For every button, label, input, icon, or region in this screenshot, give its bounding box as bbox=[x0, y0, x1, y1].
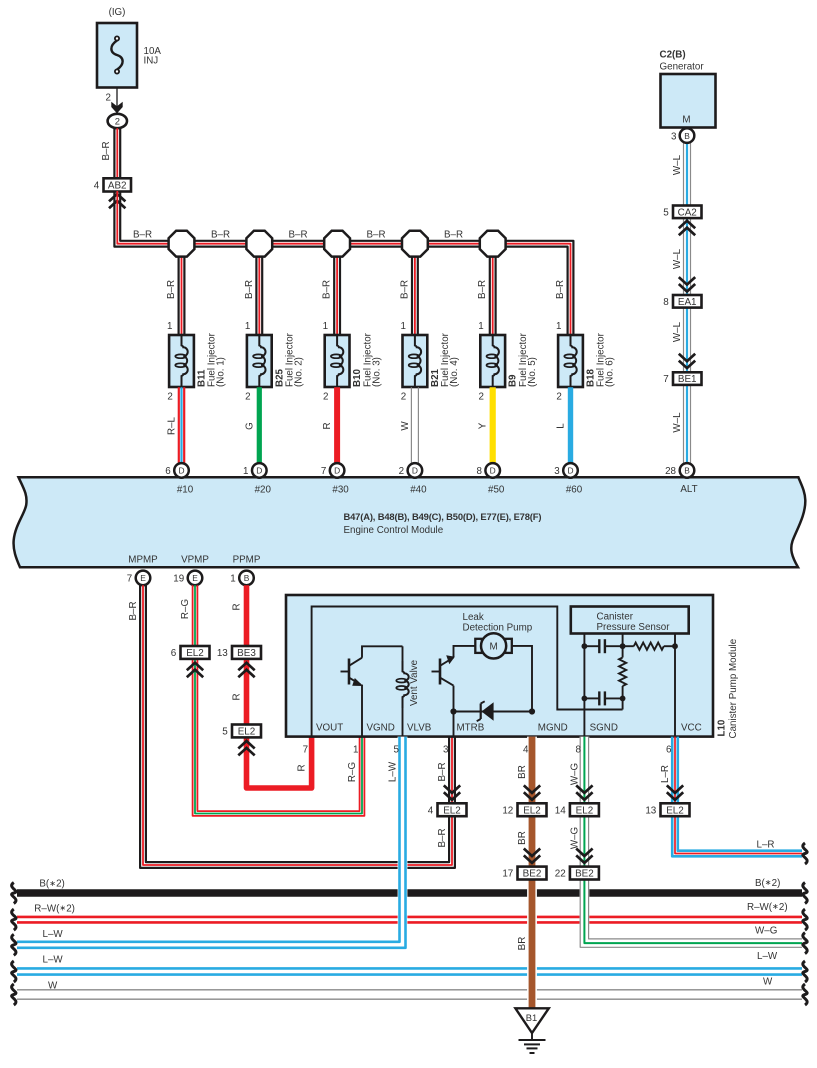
svg-text:#50: #50 bbox=[488, 484, 505, 495]
svg-text:INJ: INJ bbox=[144, 56, 159, 67]
left edge break symbols bbox=[12, 883, 16, 1006]
wire G injector B25 to ECM bbox=[244, 387, 259, 463]
svg-text:B–R: B–R bbox=[288, 230, 307, 241]
pin numbers below module bbox=[303, 745, 672, 756]
svg-text:B–R: B–R bbox=[444, 230, 463, 241]
svg-text:M: M bbox=[489, 642, 497, 653]
svg-text:W: W bbox=[400, 421, 411, 431]
svg-text:BE2: BE2 bbox=[575, 869, 594, 880]
svg-text:B–R: B–R bbox=[555, 280, 566, 299]
svg-text:L–W: L–W bbox=[388, 761, 399, 782]
svg-text:VOUT: VOUT bbox=[316, 722, 343, 733]
svg-text:R–L: R–L bbox=[167, 416, 178, 435]
svg-text:R: R bbox=[322, 422, 333, 429]
svg-text:MGND: MGND bbox=[538, 722, 568, 733]
svg-text:19: 19 bbox=[173, 574, 184, 585]
canister pump module L10 box bbox=[286, 595, 739, 739]
svg-text:L10: L10 bbox=[717, 719, 728, 736]
svg-text:6: 6 bbox=[171, 648, 177, 659]
svg-text:7: 7 bbox=[321, 466, 326, 477]
node 3 (D) pin #60 bbox=[554, 463, 582, 495]
svg-text:1: 1 bbox=[230, 574, 235, 585]
svg-text:Detection Pump: Detection Pump bbox=[463, 623, 533, 634]
svg-text:L: L bbox=[556, 423, 567, 429]
svg-text:EA1: EA1 bbox=[678, 297, 697, 308]
wire W injector B21 to ECM bbox=[400, 387, 419, 463]
svg-text:BE3: BE3 bbox=[237, 648, 256, 659]
svg-text:D: D bbox=[334, 466, 340, 476]
pin 2 of fuse, lead down bbox=[106, 88, 123, 114]
resistor R1 (horizontal) bbox=[623, 645, 634, 647]
svg-text:R–W(∗2): R–W(∗2) bbox=[747, 902, 788, 913]
transistor Q2 (pump motor driver) bbox=[432, 646, 477, 737]
connector 6 EL2 bbox=[171, 646, 210, 677]
wire R: PPMP down through BE3, EL2, across up to VOUT bbox=[232, 585, 312, 788]
svg-text:B: B bbox=[684, 466, 690, 476]
bus wire R-W(*2) bbox=[17, 902, 802, 922]
svg-text:B(∗2): B(∗2) bbox=[755, 878, 780, 889]
svg-text:Generator: Generator bbox=[660, 62, 705, 73]
svg-text:B–R: B–R bbox=[211, 230, 230, 241]
svg-text:1: 1 bbox=[400, 321, 405, 332]
fuel injector B25 (No. 2) bbox=[245, 332, 304, 402]
svg-text:R–W(∗2): R–W(∗2) bbox=[34, 903, 75, 914]
canister pressure sensor bbox=[571, 607, 689, 634]
node 2 (ellipse) bbox=[108, 114, 127, 128]
connector 14 EL2 bbox=[555, 785, 599, 816]
svg-text:W–G: W–G bbox=[755, 926, 777, 937]
svg-text:13: 13 bbox=[217, 648, 228, 659]
connector 8 EA1 bbox=[663, 277, 701, 308]
svg-text:C2(B): C2(B) bbox=[660, 50, 686, 61]
node 28 (B) at ECM ALT bbox=[665, 463, 698, 495]
svg-text:L–W: L–W bbox=[43, 954, 64, 965]
svg-text:EL2: EL2 bbox=[238, 727, 256, 738]
wire L-W: VLVB down then left (row 3) bbox=[17, 737, 406, 948]
svg-text:B1: B1 bbox=[526, 1012, 537, 1023]
svg-text:Vent Valve: Vent Valve bbox=[409, 659, 420, 706]
Engine Control Module band bbox=[14, 477, 806, 567]
svg-text:R–G: R–G bbox=[347, 762, 358, 782]
svg-text:7: 7 bbox=[303, 745, 308, 756]
svg-text:G: G bbox=[244, 422, 255, 430]
svg-text:BR: BR bbox=[517, 765, 528, 779]
resistor R2 (vertical) bbox=[619, 658, 626, 687]
node 19 (E) VPMP bbox=[173, 554, 209, 585]
svg-text:B–R: B–R bbox=[133, 230, 152, 241]
svg-text:BE1: BE1 bbox=[678, 374, 697, 385]
svg-text:R: R bbox=[232, 693, 243, 700]
svg-text:E: E bbox=[192, 573, 198, 583]
svg-text:2: 2 bbox=[401, 392, 406, 403]
wire B-R from node 2 to connector AB2 bbox=[101, 128, 120, 178]
svg-text:B(∗2): B(∗2) bbox=[39, 879, 64, 890]
B-R drop labels and pin 1 labels bbox=[166, 280, 566, 332]
svg-text:2: 2 bbox=[323, 392, 328, 403]
leak detection pump motor M bbox=[463, 612, 533, 712]
fuel injector B21 (No. 4) bbox=[401, 332, 460, 402]
svg-text:MPMP: MPMP bbox=[128, 554, 158, 565]
svg-text:L–W: L–W bbox=[757, 951, 778, 962]
svg-text:Canister: Canister bbox=[597, 612, 634, 623]
svg-text:#30: #30 bbox=[332, 484, 349, 495]
transistor Q1 (vent valve driver) bbox=[341, 646, 403, 736]
svg-text:2: 2 bbox=[556, 392, 561, 403]
capacitor C1 bbox=[584, 645, 599, 647]
svg-text:B–R: B–R bbox=[322, 280, 333, 299]
svg-text:#60: #60 bbox=[566, 484, 583, 495]
svg-text:B–R: B–R bbox=[366, 230, 385, 241]
svg-text:B–R: B–R bbox=[437, 762, 448, 781]
svg-text:W–G: W–G bbox=[569, 763, 580, 785]
svg-text:1: 1 bbox=[167, 321, 172, 332]
connector 4 EL2 bbox=[428, 785, 467, 816]
svg-text:AB2: AB2 bbox=[108, 181, 127, 192]
svg-text:3: 3 bbox=[671, 131, 677, 142]
svg-text:VGND: VGND bbox=[367, 722, 395, 733]
connector 22 BE2 bbox=[555, 849, 599, 880]
wire R–L injector B11 to ECM bbox=[167, 387, 185, 463]
svg-text:3: 3 bbox=[443, 745, 449, 756]
svg-text:CA2: CA2 bbox=[678, 207, 697, 218]
svg-text:R: R bbox=[297, 764, 308, 771]
bus wire B(*2) bbox=[17, 878, 802, 893]
svg-text:(No. 1): (No. 1) bbox=[216, 357, 227, 387]
svg-text:B–R: B–R bbox=[128, 601, 139, 620]
svg-text:1: 1 bbox=[323, 321, 328, 332]
svg-text:Leak: Leak bbox=[463, 612, 484, 623]
svg-text:E: E bbox=[140, 573, 146, 583]
connector 5 CA2 bbox=[663, 206, 701, 236]
svg-text:Canister Pump Module: Canister Pump Module bbox=[728, 638, 739, 738]
svg-text:Pressure Sensor: Pressure Sensor bbox=[597, 622, 671, 633]
svg-text:W–L: W–L bbox=[672, 154, 683, 175]
svg-text:22: 22 bbox=[555, 869, 566, 880]
module pin labels bbox=[316, 722, 702, 733]
wire W-G: SGND down then right to right edge bbox=[569, 737, 802, 948]
svg-text:Engine Control Module: Engine Control Module bbox=[344, 525, 444, 536]
svg-text:6: 6 bbox=[165, 466, 171, 477]
wire Y injector B9 to ECM bbox=[478, 387, 493, 463]
fuel injector B11 (No. 1) bbox=[167, 332, 226, 402]
svg-text:W: W bbox=[763, 977, 773, 988]
svg-text:EL2: EL2 bbox=[666, 805, 684, 816]
node 6 (D) pin #10 bbox=[165, 463, 193, 495]
svg-text:B: B bbox=[684, 131, 690, 141]
svg-text:D: D bbox=[256, 466, 262, 476]
svg-text:B–R: B–R bbox=[437, 828, 448, 847]
wire L injector B18 to ECM bbox=[556, 387, 571, 463]
svg-text:BR: BR bbox=[517, 831, 528, 845]
svg-text:1: 1 bbox=[353, 745, 358, 756]
node 1 (D) pin #20 bbox=[243, 463, 271, 495]
svg-text:8: 8 bbox=[575, 745, 581, 756]
connector 13 EL2 bbox=[645, 785, 689, 816]
svg-text:1: 1 bbox=[245, 321, 250, 332]
fuse 10A INJ (IG) bbox=[97, 7, 161, 88]
svg-text:M: M bbox=[682, 115, 690, 126]
svg-text:5: 5 bbox=[394, 745, 400, 756]
svg-text:2: 2 bbox=[115, 116, 120, 127]
svg-text:W–L: W–L bbox=[672, 412, 683, 433]
node 2 (D) pin #40 bbox=[399, 463, 427, 495]
svg-text:SGND: SGND bbox=[590, 722, 618, 733]
svg-text:4: 4 bbox=[94, 181, 100, 192]
svg-text:(No. 6): (No. 6) bbox=[605, 357, 616, 387]
svg-text:2: 2 bbox=[479, 392, 484, 403]
svg-text:VCC: VCC bbox=[681, 722, 702, 733]
wire B-R feed: AB2 down, bus right, drop to injector 6 bbox=[114, 191, 573, 335]
svg-text:VLVB: VLVB bbox=[407, 722, 432, 733]
svg-text:13: 13 bbox=[645, 805, 656, 816]
svg-text:ALT: ALT bbox=[680, 484, 697, 495]
ground B1 bbox=[515, 1008, 548, 1053]
connector 5 EL2 bbox=[222, 725, 261, 756]
wire B-R: MPMP down, across, up to 4 EL2 / MTRB bbox=[128, 585, 455, 868]
svg-text:BE2: BE2 bbox=[523, 869, 542, 880]
svg-text:B47(A), B48(B), B49(C), B50(D): B47(A), B48(B), B49(C), B50(D), E77(E), … bbox=[344, 511, 542, 522]
svg-text:17: 17 bbox=[502, 869, 513, 880]
svg-text:5: 5 bbox=[222, 727, 228, 738]
svg-text:D: D bbox=[490, 466, 496, 476]
bus wire W (row 5) bbox=[17, 977, 802, 1000]
svg-text:(No. 5): (No. 5) bbox=[527, 357, 538, 387]
svg-text:1: 1 bbox=[243, 466, 248, 477]
svg-text:4: 4 bbox=[523, 745, 529, 756]
svg-text:(IG): (IG) bbox=[109, 7, 126, 18]
svg-text:EL2: EL2 bbox=[443, 805, 461, 816]
svg-text:BR: BR bbox=[517, 937, 528, 951]
svg-text:5: 5 bbox=[663, 207, 669, 218]
fuel injector B10 (No. 3) bbox=[323, 332, 382, 402]
svg-text:W–L: W–L bbox=[672, 248, 683, 269]
connector 17 BE2 bbox=[502, 849, 546, 880]
svg-text:12: 12 bbox=[502, 805, 513, 816]
svg-text:2: 2 bbox=[106, 93, 111, 104]
capacitor C2 bbox=[584, 697, 599, 699]
svg-text:28: 28 bbox=[665, 466, 676, 477]
svg-text:6: 6 bbox=[666, 745, 672, 756]
connector 12 EL2 bbox=[502, 785, 546, 816]
svg-text:4: 4 bbox=[428, 805, 434, 816]
svg-text:L–R: L–R bbox=[660, 765, 671, 783]
svg-text:W–G: W–G bbox=[569, 827, 580, 849]
connector 4 AB2 bbox=[94, 178, 131, 208]
fuel injector B18 (No. 6) bbox=[556, 332, 615, 402]
connector 13 BE3 bbox=[217, 646, 261, 677]
vent valve coil bbox=[396, 646, 420, 736]
svg-text:1: 1 bbox=[556, 321, 561, 332]
svg-text:2: 2 bbox=[167, 392, 172, 403]
sensor network: caps, resistors bbox=[582, 634, 678, 737]
wire R injector B10 to ECM bbox=[322, 387, 337, 463]
node 3 (B) on generator bbox=[671, 128, 694, 143]
svg-text:B–R: B–R bbox=[244, 280, 255, 299]
node 7 (E) MPMP bbox=[127, 554, 158, 585]
svg-text:7: 7 bbox=[663, 374, 669, 385]
svg-text:L–R: L–R bbox=[757, 840, 775, 851]
svg-text:D: D bbox=[178, 466, 184, 476]
junction octagons on B-R bus bbox=[169, 231, 506, 257]
zener diode D1 between MTRB and MGND bbox=[450, 701, 535, 721]
generator C2(B) bbox=[660, 50, 716, 128]
node 8 (D) pin #50 bbox=[476, 463, 504, 495]
svg-text:2: 2 bbox=[399, 466, 404, 477]
right edge break symbols bbox=[803, 843, 807, 1005]
wire L-R: VCC down then right to right edge bbox=[660, 737, 802, 857]
svg-text:14: 14 bbox=[555, 805, 566, 816]
wire R-G: VPMP down to 6 EL2 then across up to VGND bbox=[180, 585, 364, 816]
svg-text:7: 7 bbox=[127, 574, 132, 585]
svg-text:#10: #10 bbox=[177, 484, 194, 495]
svg-text:B–R: B–R bbox=[477, 280, 488, 299]
module internal: VOUT riser and top rail bbox=[312, 607, 623, 737]
node 1 (B) PPMP bbox=[230, 554, 261, 585]
svg-text:(No. 4): (No. 4) bbox=[449, 357, 460, 387]
node 7 (D) pin #30 bbox=[321, 463, 349, 495]
junction dots bbox=[582, 643, 588, 649]
svg-text:PPMP: PPMP bbox=[233, 554, 261, 565]
svg-text:VPMP: VPMP bbox=[181, 554, 209, 565]
B-R labels on MTRB wire bbox=[437, 762, 448, 847]
svg-text:#20: #20 bbox=[255, 484, 272, 495]
svg-text:EL2: EL2 bbox=[576, 805, 594, 816]
fuel injector B9 (No. 5) bbox=[479, 332, 538, 402]
svg-text:L–W: L–W bbox=[43, 929, 64, 940]
connector 7 BE1 bbox=[663, 354, 701, 386]
svg-text:2: 2 bbox=[245, 392, 250, 403]
wire BR: MGND down to ground B1 bbox=[517, 737, 532, 1008]
wire W-L generator to ECM ALT bbox=[672, 140, 691, 464]
wire B-R drops from junctions to injectors 1-5 bbox=[179, 244, 496, 335]
svg-text:B–R: B–R bbox=[101, 141, 112, 160]
svg-text:B–R: B–R bbox=[399, 280, 410, 299]
svg-text:D: D bbox=[567, 466, 573, 476]
svg-text:#40: #40 bbox=[410, 484, 427, 495]
svg-text:R–G: R–G bbox=[180, 599, 191, 619]
svg-text:8: 8 bbox=[476, 466, 482, 477]
svg-text:EL2: EL2 bbox=[523, 805, 541, 816]
svg-text:D: D bbox=[412, 466, 418, 476]
svg-text:1: 1 bbox=[478, 321, 483, 332]
svg-text:Y: Y bbox=[478, 422, 489, 429]
svg-text:MTRB: MTRB bbox=[457, 722, 485, 733]
svg-text:W: W bbox=[48, 980, 58, 991]
bus wire L-W (row 4) bbox=[17, 951, 802, 974]
svg-text:(No. 3): (No. 3) bbox=[371, 357, 382, 387]
svg-text:R: R bbox=[232, 603, 243, 610]
svg-text:(No. 2): (No. 2) bbox=[294, 357, 305, 387]
svg-text:8: 8 bbox=[663, 297, 669, 308]
svg-text:B–R: B–R bbox=[166, 280, 177, 299]
svg-text:B: B bbox=[244, 573, 250, 583]
svg-text:EL2: EL2 bbox=[186, 648, 204, 659]
svg-text:3: 3 bbox=[554, 466, 560, 477]
svg-text:W–L: W–L bbox=[672, 321, 683, 342]
